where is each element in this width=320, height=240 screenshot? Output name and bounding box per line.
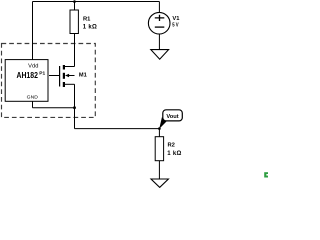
voltage source V1 [148, 12, 170, 34]
wire: R1 bottom to M1 drain [74, 34, 76, 67]
dashed box (AH182 module boundary) [2, 44, 96, 118]
svg-text:Vdd: Vdd [28, 63, 38, 69]
svg-text:R2: R2 [168, 142, 175, 148]
wire: output node to R2 [158, 129, 160, 137]
IC U1 AH182 [5, 60, 48, 102]
transistor M1 (NMOS) [60, 65, 75, 87]
wire: top net from Vdd to V1 [33, 1, 160, 3]
svg-text:V1: V1 [172, 16, 180, 22]
label AH182 [17, 71, 39, 80]
wire: M1 source down to GND net [74, 84, 76, 107]
svg-text:M1: M1 [79, 73, 87, 79]
ground: below V1 [151, 50, 169, 60]
ground: below R2 [151, 179, 168, 187]
label R2 value [167, 142, 181, 157]
svg-text:R1: R1 [83, 17, 91, 23]
svg-text:P1: P1 [39, 71, 45, 77]
svg-text:1 kΩ: 1 kΩ [167, 151, 181, 157]
pin label P1 [39, 71, 45, 77]
label R1 value [83, 17, 97, 31]
wire: R2 bottom lead [158, 161, 160, 179]
pin label Vdd [28, 63, 38, 69]
svg-text:GND: GND [27, 94, 39, 100]
svg-text:AH182: AH182 [17, 71, 39, 80]
wire: source node down [74, 108, 76, 129]
wire: GND pin to source node [33, 107, 75, 109]
svg-text:5 V: 5 V [172, 22, 178, 28]
junction: output node dot [158, 127, 161, 130]
wire: R1 top lead [74, 2, 76, 11]
junction: top node dot [73, 0, 76, 3]
svg-text:Vout: Vout [166, 114, 178, 120]
wire: GND pin stub [32, 101, 34, 107]
pin label GND [27, 94, 39, 100]
wire: V1 top lead [158, 2, 160, 13]
resistor R2 [155, 137, 163, 161]
wire: Vdd vertical drop to AH182 [32, 2, 34, 60]
resistor R1 [70, 10, 78, 34]
wire: V1 bottom lead [158, 34, 160, 50]
wire: gate lead P1 to M1 [49, 75, 59, 77]
wire: bottom run to output node [75, 128, 160, 130]
svg-text:1 kΩ: 1 kΩ [83, 25, 97, 31]
junction: source node dot [73, 106, 76, 109]
net label Vout (flag) [159, 110, 182, 129]
label M1 [79, 73, 87, 79]
label V1 value [172, 16, 180, 29]
decorative green mark (cropped icon at right edge) [264, 172, 268, 177]
